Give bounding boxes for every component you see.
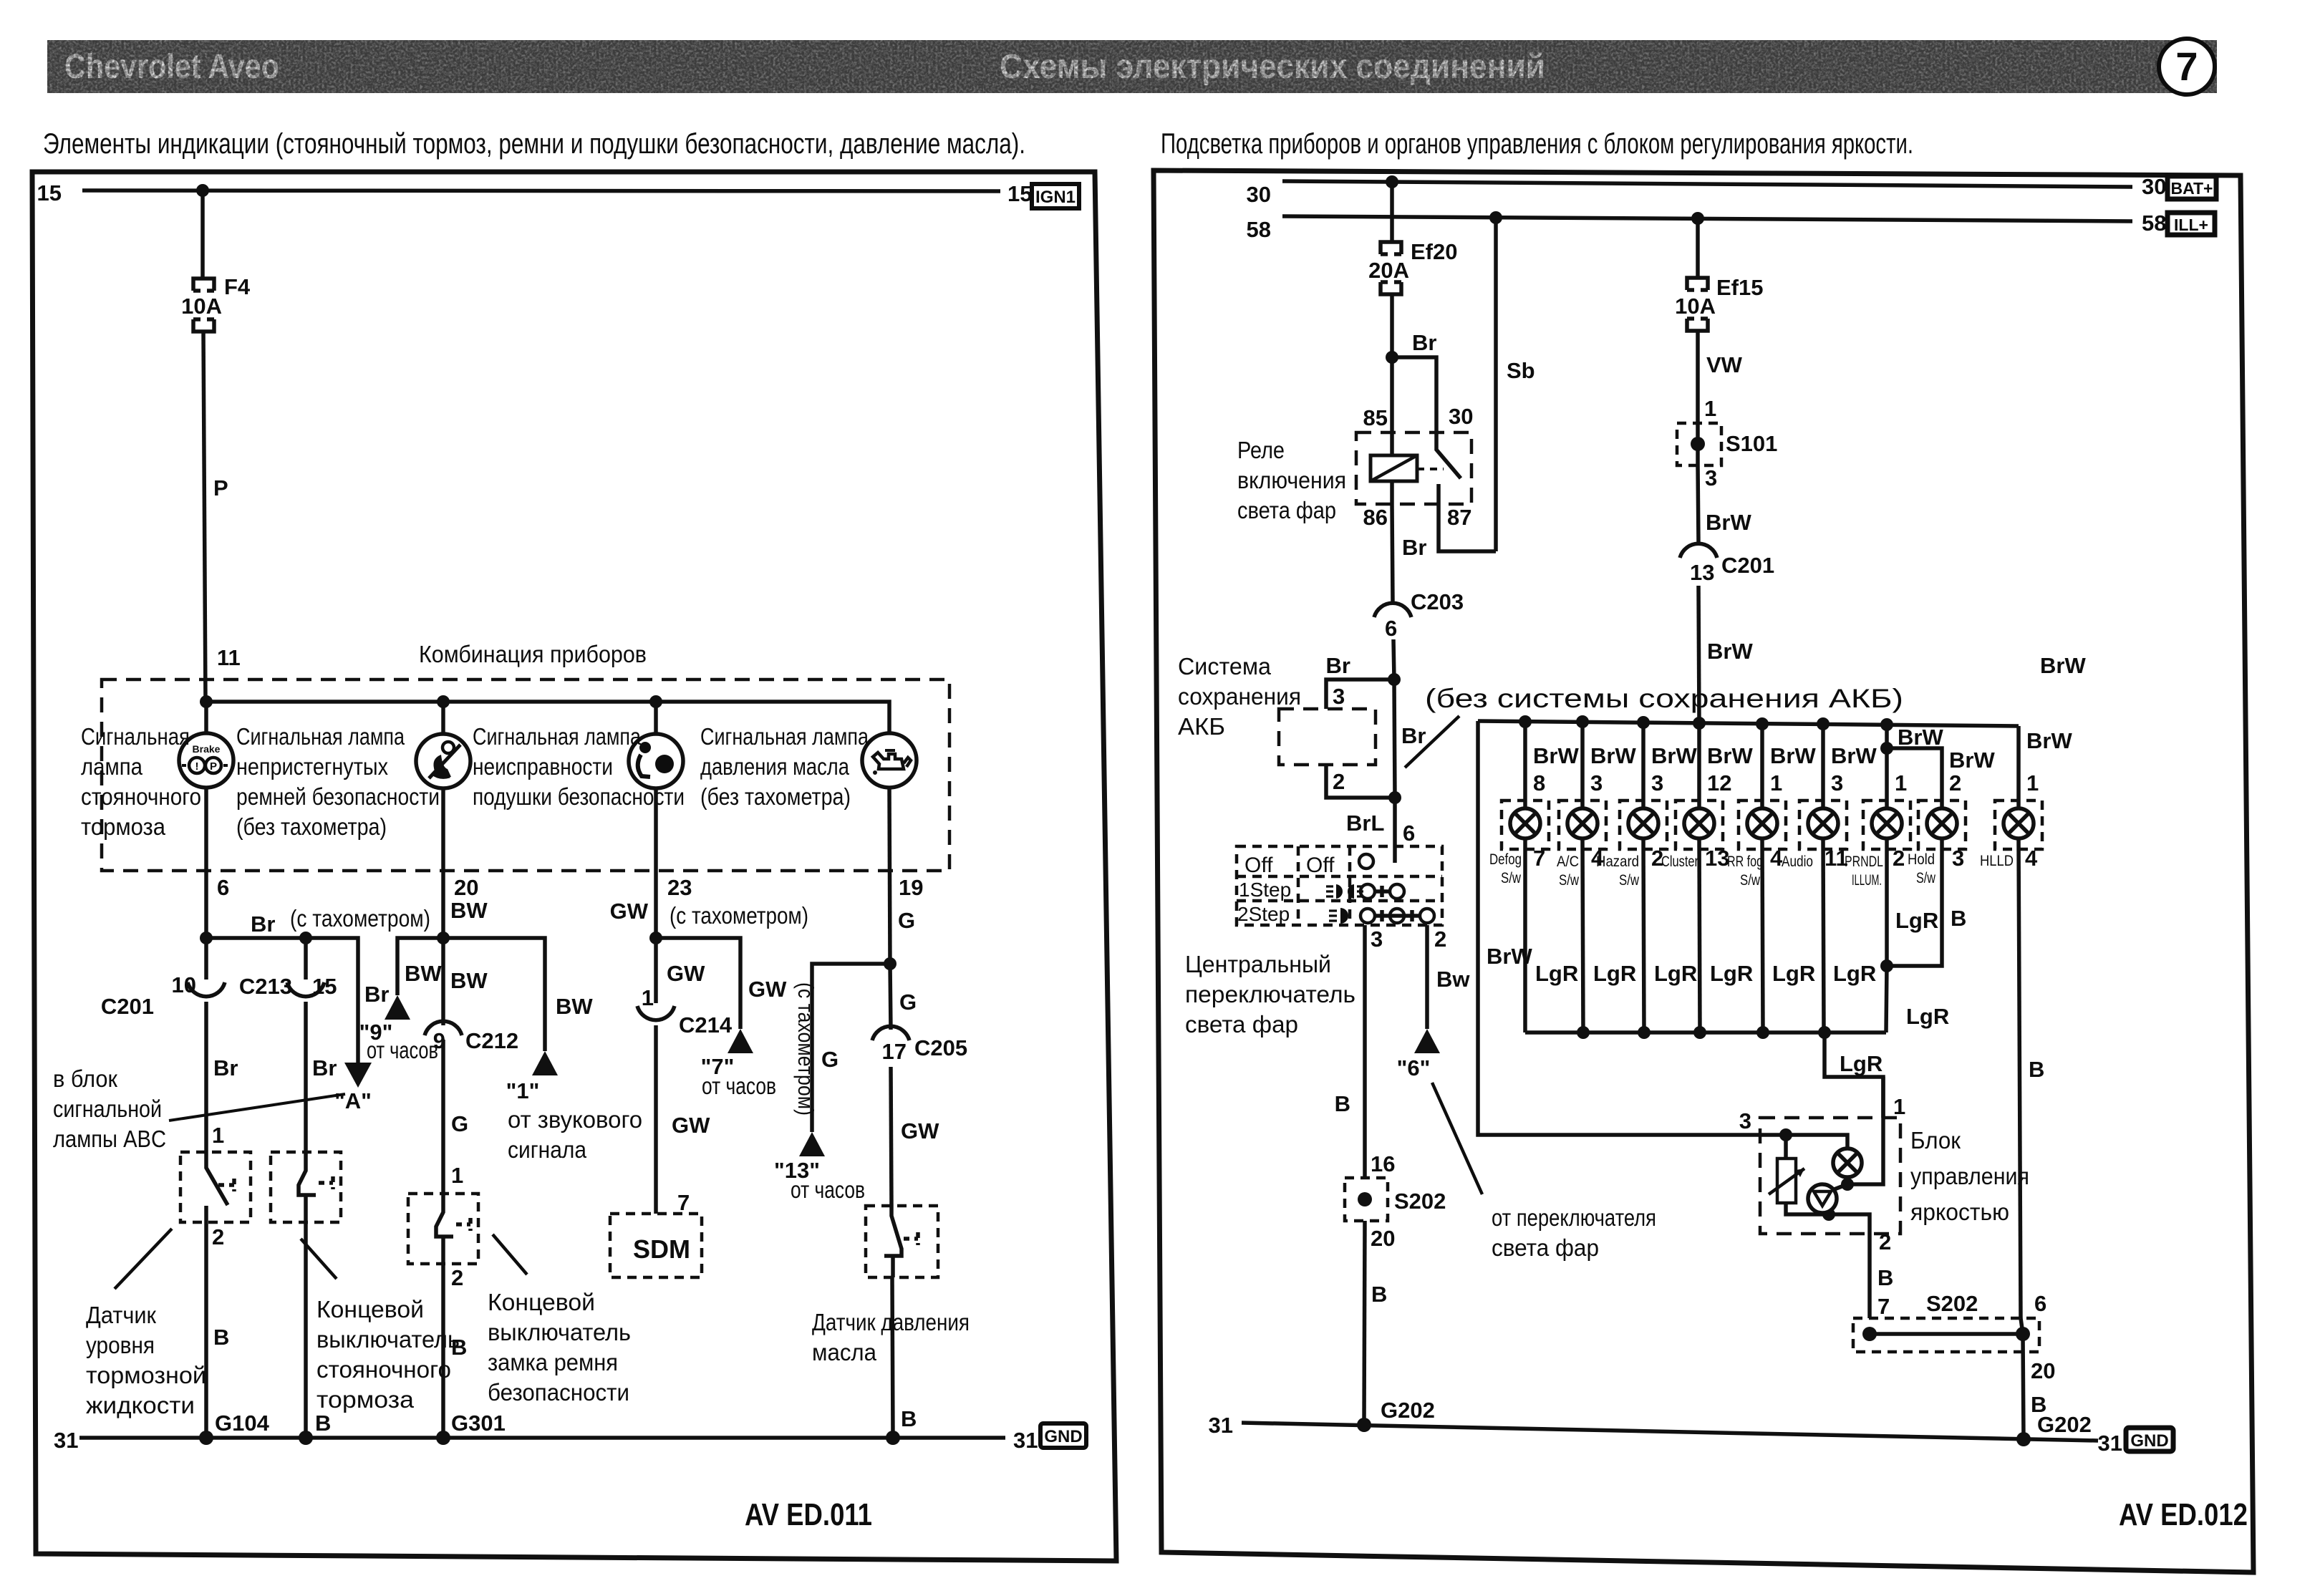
dimmer output 2 wire B xyxy=(1870,1229,1893,1319)
lamp HLLD xyxy=(1980,726,2072,1318)
wire Br fuse Ef20 to relay xyxy=(1386,294,1436,432)
svg-text:яркостью: яркостью xyxy=(1910,1199,2009,1225)
svg-text:GW: GW xyxy=(672,1113,710,1138)
svg-text:Элементы индикации (стояночный: Элементы индикации (стояночный тормоз, р… xyxy=(43,128,1025,160)
pin 6 / wire Br below cluster xyxy=(206,788,229,938)
parking brake switch box xyxy=(271,1152,341,1438)
svg-text:13: 13 xyxy=(1690,560,1714,585)
svg-text:Сигнальная лампа: Сигнальная лампа xyxy=(700,723,869,750)
illumination bus bottom xyxy=(1525,966,1949,1039)
svg-text:Датчик: Датчик xyxy=(86,1302,157,1328)
svg-text:6: 6 xyxy=(1403,821,1415,846)
svg-text:Br: Br xyxy=(364,982,389,1007)
svg-text:GW: GW xyxy=(901,1118,939,1143)
svg-text:S/w: S/w xyxy=(1619,872,1640,889)
switch contacts row2 xyxy=(1361,884,1404,899)
switch contacts row3 xyxy=(1361,909,1434,923)
parking brake lamp label xyxy=(81,723,201,840)
ground bus 31 right panel xyxy=(1209,1398,2122,1456)
svg-text:G: G xyxy=(898,908,915,933)
svg-text:LgR: LgR xyxy=(1906,1004,1949,1029)
svg-text:BrW: BrW xyxy=(1949,748,1995,773)
arrow 6 to headlamp switch xyxy=(1397,1029,1440,1080)
svg-text:BW: BW xyxy=(405,961,442,986)
seat belt warning lamp xyxy=(416,702,470,788)
svg-text:неисправности: неисправности xyxy=(473,753,613,780)
svg-text:от переключателя: от переключателя xyxy=(1492,1204,1656,1231)
svg-text:HLLD: HLLD xyxy=(1980,853,2014,869)
callout line to parking brake switch xyxy=(301,1239,337,1279)
oil pressure switch label xyxy=(812,1309,970,1365)
svg-text:1: 1 xyxy=(1704,396,1716,421)
svg-text:3: 3 xyxy=(1739,1108,1751,1133)
svg-text:G202: G202 xyxy=(1381,1398,1435,1423)
svg-text:19: 19 xyxy=(899,875,923,900)
arrow 9 from clock xyxy=(359,995,438,1063)
svg-text:S202: S202 xyxy=(1394,1189,1446,1214)
svg-text:86: 86 xyxy=(1363,505,1388,530)
pin 23 wire GW xyxy=(610,788,692,938)
svg-text:от звукового: от звукового xyxy=(508,1106,642,1133)
svg-text:S/w: S/w xyxy=(1501,870,1522,886)
svg-text:11: 11 xyxy=(217,645,241,670)
connector C203 pin 6 xyxy=(1374,589,1464,679)
node Sb on bus 58 xyxy=(1489,211,1502,224)
svg-text:3: 3 xyxy=(1590,770,1603,795)
svg-text:7: 7 xyxy=(1877,1294,1890,1319)
svg-text:BrW: BrW xyxy=(2040,653,2086,678)
wire VW xyxy=(1698,331,1743,423)
svg-text:P: P xyxy=(210,760,217,773)
left panel border xyxy=(32,172,1116,1561)
svg-text:15: 15 xyxy=(1007,181,1032,206)
svg-text:LgR: LgR xyxy=(1535,961,1578,986)
svg-text:6: 6 xyxy=(2034,1291,2046,1316)
connector C201 pin 13 xyxy=(1680,543,1774,722)
svg-text:тормоза: тормоза xyxy=(81,813,166,840)
svg-text:BrW: BrW xyxy=(1831,743,1877,768)
svg-text:1: 1 xyxy=(1895,770,1907,795)
seat belt branch: bus to clock arrow 9 xyxy=(397,932,545,1051)
svg-text:30: 30 xyxy=(1449,404,1473,429)
svg-text:света фар: света фар xyxy=(1492,1234,1599,1261)
battery saver output wire xyxy=(1326,765,1395,836)
svg-text:Сигнальная лампа: Сигнальная лампа xyxy=(236,723,405,750)
splice S101 pin 1/3 xyxy=(1677,423,1777,490)
lamp Hazard S/w xyxy=(1596,722,1697,1032)
svg-text:Off: Off xyxy=(1245,853,1273,877)
svg-text:(без тахометра): (без тахометра) xyxy=(700,783,851,810)
svg-text:SDM: SDM xyxy=(633,1234,690,1264)
airbag branch to clock arrow 7 xyxy=(649,932,787,1029)
node battery saver branch xyxy=(1326,653,1401,709)
svg-text:16: 16 xyxy=(1371,1151,1395,1176)
svg-text:давления масла: давления масла xyxy=(700,753,850,780)
svg-text:20: 20 xyxy=(454,875,478,900)
svg-text:Концевой: Концевой xyxy=(316,1296,424,1322)
BAT+ box xyxy=(2167,176,2216,199)
svg-text:C205: C205 xyxy=(914,1035,967,1060)
svg-text:"1": "1" xyxy=(506,1078,540,1103)
svg-text:GW: GW xyxy=(667,961,705,986)
svg-text:F4: F4 xyxy=(224,274,251,299)
dimmer unit box xyxy=(1760,1118,1900,1234)
svg-text:RR fog: RR fog xyxy=(1727,853,1763,870)
node Br junction line xyxy=(200,911,358,1063)
svg-text:2: 2 xyxy=(1879,1229,1891,1254)
svg-text:G104: G104 xyxy=(215,1411,270,1436)
switch pin 2 output xyxy=(1427,925,1470,1029)
svg-text:Центральный: Центральный xyxy=(1185,951,1331,977)
svg-text:GW: GW xyxy=(748,977,787,1002)
svg-text:тормоза: тормоза xyxy=(316,1386,415,1413)
svg-text:стояночного: стояночного xyxy=(316,1356,451,1383)
svg-text:Сигнальная лампа: Сигнальная лампа xyxy=(473,723,642,750)
svg-text:(без системы сохранения АКБ): (без системы сохранения АКБ) xyxy=(1425,684,1903,713)
svg-text:BW: BW xyxy=(450,968,488,993)
wire BrW S101 to C201 xyxy=(1698,465,1751,543)
headlamp relay label xyxy=(1237,437,1346,523)
splice S202 right xyxy=(1853,1291,2055,1439)
svg-text:Sb: Sb xyxy=(1507,358,1535,383)
wire BrW left drop from bus xyxy=(1478,721,1786,1135)
pin 20 wire BW xyxy=(443,788,488,938)
svg-text:13: 13 xyxy=(1705,846,1729,871)
connector C201 pin 10 xyxy=(101,938,238,1152)
svg-text:подушки безопасности: подушки безопасности xyxy=(473,783,685,810)
svg-text:Блок: Блок xyxy=(1910,1127,1961,1154)
relay contact xyxy=(1436,432,1496,551)
cluster internal bus xyxy=(200,695,889,733)
wire Sb xyxy=(1496,218,1535,551)
svg-text:C201: C201 xyxy=(101,994,154,1019)
svg-text:жидкости: жидкости xyxy=(86,1392,195,1418)
header bar xyxy=(47,40,2217,93)
svg-text:B: B xyxy=(2029,1057,2044,1082)
svg-text:20: 20 xyxy=(2031,1358,2055,1383)
dimmer input 3 xyxy=(1739,1108,1792,1141)
svg-text:сигнала: сигнала xyxy=(508,1136,587,1163)
svg-text:23: 23 xyxy=(667,875,692,900)
svg-text:BrW: BrW xyxy=(1651,743,1697,768)
svg-text:Реле: Реле xyxy=(1237,437,1285,463)
svg-text:включения: включения xyxy=(1237,467,1346,493)
svg-text:BW: BW xyxy=(556,994,593,1019)
lamp PRNDL ILLUM xyxy=(1845,725,1943,966)
svg-text:АКБ: АКБ xyxy=(1178,713,1225,740)
pin 19 wire G xyxy=(889,788,923,964)
svg-text:B: B xyxy=(1335,1091,1350,1116)
lamp Audio xyxy=(1782,724,1877,1032)
svg-text:58: 58 xyxy=(1247,217,1271,242)
wire Br bypass xyxy=(1388,679,1426,804)
svg-text:тормозной: тормозной xyxy=(86,1362,206,1388)
svg-text:C214: C214 xyxy=(679,1012,733,1038)
svg-text:Br: Br xyxy=(1326,653,1350,678)
note without battery saver xyxy=(1405,684,1903,768)
svg-text:BAT+: BAT+ xyxy=(2171,179,2213,198)
svg-text:B: B xyxy=(315,1411,331,1436)
wire bus58 to fuse Ef15 xyxy=(1696,218,1700,277)
svg-text:2: 2 xyxy=(212,1224,224,1249)
svg-text:Hold: Hold xyxy=(1908,851,1935,868)
svg-text:IGN1: IGN1 xyxy=(1035,188,1076,207)
svg-text:BrW: BrW xyxy=(1707,743,1753,768)
svg-text:PRNDL: PRNDL xyxy=(1845,853,1883,870)
note: to ABS warning lamp unit xyxy=(53,1065,166,1152)
svg-text:GND: GND xyxy=(2130,1431,2168,1451)
svg-text:6: 6 xyxy=(1385,616,1397,641)
svg-text:C213: C213 xyxy=(239,974,292,999)
svg-text:лампы ABC: лампы ABC xyxy=(53,1126,166,1152)
arrow 7 from clock xyxy=(701,1029,776,1099)
svg-text:Br: Br xyxy=(1412,330,1436,355)
wire bus30 to fuse Ef20 xyxy=(1390,182,1394,241)
svg-text:G: G xyxy=(899,990,917,1015)
svg-text:Комбинация приборов: Комбинация приборов xyxy=(419,641,647,667)
svg-text:Cluster: Cluster xyxy=(1661,853,1698,870)
relay coil xyxy=(1371,432,1444,504)
svg-text:1Step: 1Step xyxy=(1239,879,1291,901)
svg-text:S/w: S/w xyxy=(1559,872,1580,889)
svg-text:58: 58 xyxy=(2142,211,2166,236)
svg-text:BrW: BrW xyxy=(2026,728,2072,753)
svg-text:S/w: S/w xyxy=(1740,872,1761,889)
svg-text:Brake: Brake xyxy=(193,743,221,755)
svg-text:"A": "A" xyxy=(334,1088,372,1113)
svg-text:Подсветка приборов и органов у: Подсветка приборов и органов управления … xyxy=(1161,128,1913,160)
svg-text:10A: 10A xyxy=(1675,294,1716,319)
svg-text:света фар: света фар xyxy=(1185,1011,1298,1038)
svg-text:"6": "6" xyxy=(1397,1055,1431,1080)
svg-text:переключатель: переключатель xyxy=(1185,981,1355,1007)
svg-text:BrL: BrL xyxy=(1346,811,1384,836)
svg-text:3: 3 xyxy=(1831,770,1843,795)
lamp RR fog S/w xyxy=(1727,724,1816,1032)
svg-text:B: B xyxy=(1951,906,1966,931)
ground bus 31 GND left xyxy=(54,1411,1038,1453)
callout line to brake fluid sensor xyxy=(115,1229,172,1289)
svg-text:G: G xyxy=(821,1047,838,1072)
svg-text:Ef15: Ef15 xyxy=(1716,275,1763,300)
svg-text:замка ремня: замка ремня xyxy=(488,1349,618,1375)
bus 15 IGN1 xyxy=(37,180,1033,206)
svg-text:LgR: LgR xyxy=(1710,961,1753,986)
battery saver label xyxy=(1178,653,1301,740)
svg-text:Датчик давления: Датчик давления xyxy=(812,1309,970,1335)
lamp Cluster xyxy=(1661,723,1753,1032)
svg-text:15: 15 xyxy=(312,974,337,999)
svg-text:Ef20: Ef20 xyxy=(1411,239,1457,264)
svg-text:C201: C201 xyxy=(1721,553,1774,578)
svg-text:3: 3 xyxy=(1651,770,1663,795)
svg-text:масла: масла xyxy=(812,1339,877,1365)
svg-text:LgR: LgR xyxy=(1593,961,1636,986)
brake fluid level sensor box xyxy=(180,1152,251,1438)
right panel border xyxy=(1154,170,2253,1572)
svg-text:Hazard: Hazard xyxy=(1596,853,1639,870)
svg-text:Audio: Audio xyxy=(1782,853,1813,870)
svg-text:ремней безопасности: ремней безопасности xyxy=(236,783,440,810)
fuse Ef20 20A xyxy=(1368,239,1457,294)
svg-text:от часов: от часов xyxy=(791,1176,865,1203)
callout line to ABS note xyxy=(169,1094,345,1121)
svg-text:(без тахометра): (без тахометра) xyxy=(236,813,387,840)
node Ef15 on bus 58 xyxy=(1691,212,1704,225)
ILL+ box xyxy=(2167,213,2215,235)
svg-text:Br: Br xyxy=(1402,535,1426,560)
svg-text:G301: G301 xyxy=(451,1411,506,1436)
airbag warning lamp xyxy=(629,702,683,788)
svg-text:4: 4 xyxy=(2025,846,2038,871)
svg-text:87: 87 xyxy=(1447,505,1471,530)
illumination bus top xyxy=(1478,653,2086,731)
svg-text:10: 10 xyxy=(172,972,196,997)
svg-text:1: 1 xyxy=(642,985,654,1010)
svg-text:AV ED.011: AV ED.011 xyxy=(745,1497,872,1532)
svg-text:(с тахометром): (с тахометром) xyxy=(670,902,808,929)
svg-text:LgR: LgR xyxy=(1840,1051,1883,1076)
svg-text:20: 20 xyxy=(1371,1226,1395,1251)
svg-text:85: 85 xyxy=(1363,405,1388,430)
dimmer lamp xyxy=(1786,1077,1883,1191)
GND box right xyxy=(2126,1428,2173,1451)
svg-text:света фар: света фар xyxy=(1237,497,1336,523)
svg-text:Br: Br xyxy=(1401,723,1426,748)
wire Br relay 86 to C203 xyxy=(1392,504,1426,603)
svg-text:S/w: S/w xyxy=(1916,870,1936,886)
svg-text:31: 31 xyxy=(1209,1413,1233,1438)
svg-text:выключатель: выключатель xyxy=(316,1326,460,1353)
svg-text:GND: GND xyxy=(1044,1427,1082,1446)
node on bus 15 xyxy=(196,184,209,197)
svg-text:BrW: BrW xyxy=(1706,510,1751,535)
connector C205 pin 17 xyxy=(872,964,967,1206)
node Ef20 on bus 30 xyxy=(1386,175,1398,188)
oil branch to clock arrow 13 xyxy=(812,957,896,1132)
svg-text:Defog: Defog xyxy=(1489,851,1522,868)
arrow 1 from horn xyxy=(506,994,642,1163)
svg-text:VW: VW xyxy=(1706,352,1743,377)
svg-text:7: 7 xyxy=(677,1190,690,1215)
svg-text:20A: 20A xyxy=(1368,258,1409,283)
oil pressure warning lamp xyxy=(862,733,917,788)
fuse F4 10A xyxy=(181,274,251,332)
svg-text:P: P xyxy=(213,475,228,500)
arrow 13 from clock xyxy=(774,1132,865,1203)
splice S202 left pin 16 xyxy=(1345,1151,1446,1424)
svg-text:безопасности: безопасности xyxy=(488,1379,629,1406)
brake fluid sensor label xyxy=(86,1302,206,1418)
dimmer unit label xyxy=(1910,1127,2029,1225)
svg-text:LgR: LgR xyxy=(1654,961,1697,986)
IGN1 box xyxy=(1032,184,1079,208)
svg-text:2: 2 xyxy=(1949,770,1961,795)
svg-text:Off: Off xyxy=(1306,853,1335,877)
connector C212 pin 9 xyxy=(425,938,518,1194)
svg-text:Система: Система xyxy=(1178,653,1272,679)
svg-text:C212: C212 xyxy=(465,1028,518,1053)
battery saver box xyxy=(1279,709,1376,765)
svg-text:1: 1 xyxy=(1893,1094,1905,1119)
svg-text:LgR: LgR xyxy=(1833,961,1876,986)
svg-text:3: 3 xyxy=(1705,465,1717,490)
svg-text:C203: C203 xyxy=(1411,589,1464,614)
svg-text:!: ! xyxy=(195,760,199,773)
svg-text:12: 12 xyxy=(1707,770,1731,795)
svg-text:BrW: BrW xyxy=(1590,743,1636,768)
svg-text:7: 7 xyxy=(2175,44,2198,89)
svg-text:15: 15 xyxy=(37,180,62,205)
svg-text:Br: Br xyxy=(213,1055,238,1080)
svg-text:уровня: уровня xyxy=(86,1332,155,1358)
svg-text:от часов: от часов xyxy=(367,1037,438,1063)
svg-text:B: B xyxy=(901,1406,917,1431)
svg-text:1: 1 xyxy=(212,1123,224,1148)
lamp Defog S/w xyxy=(1489,722,1579,1032)
svg-text:непристегнутых: непристегнутых xyxy=(236,753,388,780)
page number 7 xyxy=(2159,39,2215,95)
headlamp icon 2Step xyxy=(1329,908,1348,924)
svg-text:BrW: BrW xyxy=(1487,944,1532,969)
svg-text:Br: Br xyxy=(251,911,275,937)
callout line to seat belt switch xyxy=(493,1234,527,1275)
svg-text:LgR: LgR xyxy=(1895,908,1938,933)
svg-text:17: 17 xyxy=(882,1039,907,1064)
svg-text:выключатель: выключатель xyxy=(488,1319,631,1345)
dimmer transistor xyxy=(1808,1184,1847,1214)
svg-text:1: 1 xyxy=(451,1163,463,1188)
svg-text:B: B xyxy=(2031,1392,2046,1417)
svg-text:Br: Br xyxy=(312,1055,337,1080)
svg-text:лампа: лампа xyxy=(81,753,143,780)
svg-text:в блок: в блок xyxy=(53,1065,118,1092)
svg-text:1: 1 xyxy=(1770,770,1782,795)
svg-text:A/C: A/C xyxy=(1557,853,1579,870)
SDM box xyxy=(610,1214,702,1277)
svg-text:B: B xyxy=(1877,1265,1893,1290)
svg-text:3: 3 xyxy=(1952,846,1964,871)
wire P from fuse to cluster xyxy=(203,331,241,702)
parking brake warning lamp xyxy=(179,702,233,788)
airbag lamp label xyxy=(473,723,685,810)
svg-text:сигнальной: сигнальной xyxy=(53,1096,162,1122)
parking brake switch label xyxy=(316,1296,460,1413)
svg-text:6: 6 xyxy=(217,875,229,900)
svg-text:Сигнальная: Сигнальная xyxy=(81,723,190,750)
svg-text:(с тахометром): (с тахометром) xyxy=(793,982,818,1116)
connector C213 pin 15 xyxy=(239,938,337,1152)
seat belt lamp label xyxy=(236,723,440,840)
fuse Ef15 10A xyxy=(1675,275,1763,331)
svg-text:1: 1 xyxy=(2026,770,2039,795)
svg-text:ILLUM.: ILLUM. xyxy=(1852,872,1882,889)
dimmer potentiometer xyxy=(1769,1135,1870,1234)
position lamp icon 1Step xyxy=(1326,884,1363,899)
lamp Hold S/w branch xyxy=(1880,748,1995,972)
bus 58 ILL+ xyxy=(1247,211,2167,242)
svg-text:2: 2 xyxy=(451,1265,463,1290)
svg-text:BrW: BrW xyxy=(1533,743,1579,768)
lamp A/C S/w xyxy=(1557,722,1636,1032)
svg-text:сохранения: сохранения xyxy=(1178,683,1301,710)
svg-text:10A: 10A xyxy=(181,294,222,319)
svg-text:3: 3 xyxy=(1333,684,1345,709)
svg-text:31: 31 xyxy=(54,1428,78,1453)
svg-text:2: 2 xyxy=(1333,769,1345,794)
svg-text:2: 2 xyxy=(1893,846,1905,871)
wire branch to relay contact 30 xyxy=(1392,357,1436,432)
